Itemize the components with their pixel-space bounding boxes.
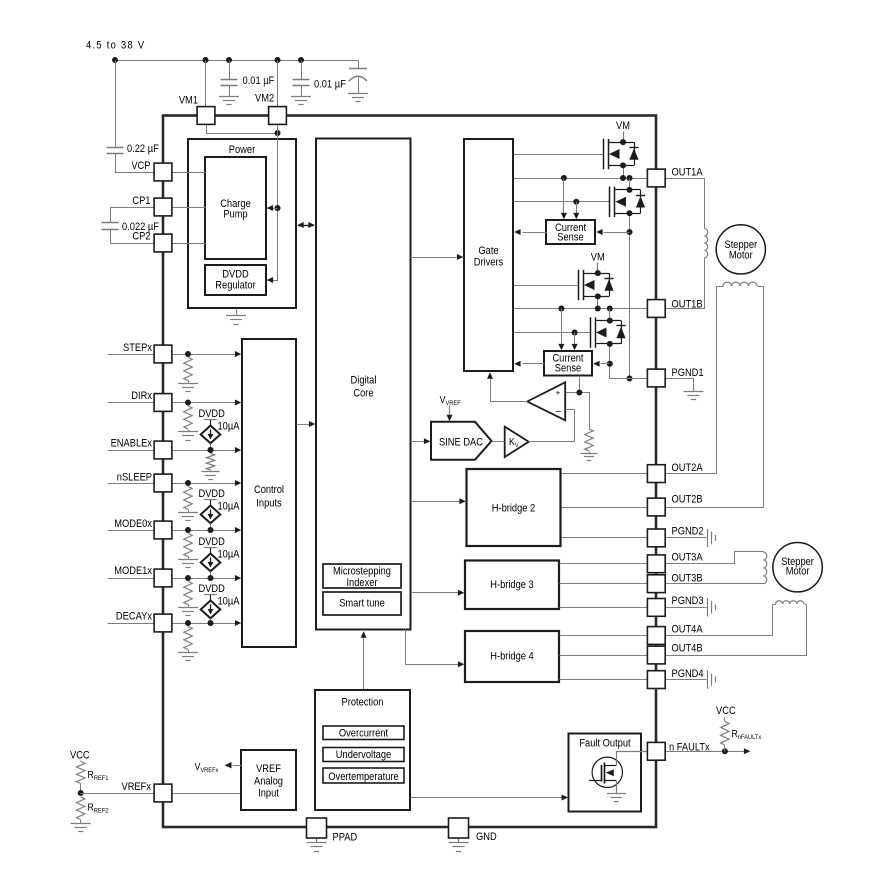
svg-text:DVDD: DVDD [199, 489, 225, 501]
svg-text:Motor: Motor [729, 250, 753, 262]
svg-text:OUT2A: OUT2A [672, 463, 703, 475]
svg-text:Regulator: Regulator [215, 280, 256, 292]
svg-text:VCP: VCP [131, 161, 150, 173]
svg-text:Undervoltage: Undervoltage [336, 750, 392, 762]
svg-text:VM1: VM1 [179, 95, 199, 107]
svg-text:OUT4B: OUT4B [672, 643, 703, 655]
svg-text:CP1: CP1 [132, 196, 151, 208]
svg-text:10µA: 10µA [218, 421, 240, 433]
svg-text:Analog: Analog [254, 776, 283, 788]
svg-text:nSLEEP: nSLEEP [117, 472, 153, 484]
svg-text:Sense: Sense [555, 363, 582, 375]
svg-text:Sense: Sense [557, 232, 584, 244]
svg-text:DECAYx: DECAYx [116, 611, 152, 623]
svg-text:10µA: 10µA [218, 501, 240, 513]
svg-text:ENABLEx: ENABLEx [111, 438, 152, 450]
svg-text:Gate: Gate [478, 246, 499, 258]
svg-text:Pump: Pump [223, 209, 248, 221]
svg-text:GND: GND [476, 832, 497, 844]
svg-text:DVDD: DVDD [222, 269, 248, 281]
svg-text:VCC: VCC [70, 750, 90, 762]
svg-text:VREF: VREF [256, 764, 281, 776]
svg-text:Overtemperature: Overtemperature [328, 772, 399, 784]
svg-text:MODE1x: MODE1x [114, 566, 152, 578]
svg-text:SINE DAC: SINE DAC [439, 437, 483, 449]
svg-text:PGND2: PGND2 [672, 526, 705, 538]
svg-text:Control: Control [254, 485, 284, 497]
svg-text:Overcurrent: Overcurrent [339, 728, 388, 740]
svg-text:+: + [556, 387, 561, 398]
svg-text:PGND3: PGND3 [672, 596, 705, 608]
svg-text:4.5 to 38 V: 4.5 to 38 V [86, 40, 144, 52]
svg-text:H-bridge 2: H-bridge 2 [492, 503, 536, 515]
svg-text:VM2: VM2 [255, 93, 275, 105]
svg-text:Smart tune: Smart tune [339, 598, 385, 610]
svg-text:STEPx: STEPx [123, 343, 152, 355]
svg-text:–: – [556, 405, 562, 417]
svg-text:VM: VM [591, 252, 605, 264]
svg-text:PGND4: PGND4 [672, 669, 705, 681]
svg-text:Core: Core [353, 388, 374, 400]
svg-text:Input: Input [258, 788, 279, 800]
svg-text:Drivers: Drivers [474, 257, 504, 269]
svg-text:OUT4A: OUT4A [672, 624, 703, 636]
svg-text:Motor: Motor [786, 566, 810, 578]
svg-text:OUT3A: OUT3A [672, 552, 703, 564]
svg-text:Inputs: Inputs [256, 498, 281, 510]
svg-text:0.22 µF: 0.22 µF [127, 144, 159, 156]
svg-text:PGND1: PGND1 [672, 368, 705, 380]
svg-text:10µA: 10µA [218, 549, 240, 561]
svg-text:Fault Output: Fault Output [579, 738, 630, 750]
svg-text:DVDD: DVDD [199, 537, 225, 549]
svg-text:Indexer: Indexer [346, 578, 378, 590]
svg-text:H-bridge 4: H-bridge 4 [490, 651, 534, 663]
svg-text:DVDD: DVDD [199, 584, 225, 596]
svg-text:CP2: CP2 [132, 231, 151, 243]
svg-text:Protection: Protection [342, 697, 384, 709]
svg-text:Microstepping: Microstepping [333, 566, 391, 578]
svg-text:MODE0x: MODE0x [114, 519, 152, 531]
svg-text:VM: VM [616, 121, 630, 133]
svg-text:VCC: VCC [716, 706, 736, 718]
svg-text:OUT3B: OUT3B [672, 573, 703, 585]
svg-text:Digital: Digital [351, 375, 377, 387]
svg-text:OUT1A: OUT1A [672, 167, 703, 179]
svg-text:OUT2B: OUT2B [672, 494, 703, 506]
svg-text:VREFx: VREFx [121, 782, 151, 794]
svg-text:0.01 µF: 0.01 µF [243, 76, 275, 88]
svg-text:OUT1B: OUT1B [672, 299, 703, 311]
svg-text:0.01 µF: 0.01 µF [314, 79, 346, 91]
svg-text:10µA: 10µA [218, 596, 240, 608]
svg-text:H-bridge 3: H-bridge 3 [490, 580, 534, 592]
svg-text:DIRx: DIRx [131, 391, 152, 403]
svg-text:DVDD: DVDD [199, 409, 225, 421]
svg-text:n FAULTx: n FAULTx [669, 742, 710, 754]
svg-text:Power: Power [229, 145, 256, 157]
svg-text:PPAD: PPAD [332, 832, 357, 844]
